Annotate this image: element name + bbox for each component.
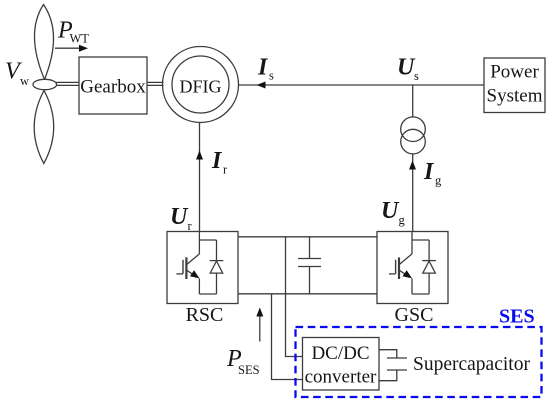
svg-text:converter: converter: [305, 367, 377, 388]
IGBT module inside GSC: [389, 232, 436, 294]
DFIG generator inner circle: [172, 56, 229, 113]
svg-text:U: U: [381, 198, 400, 224]
svg-text:g: g: [435, 174, 442, 188]
svg-text:Gearbox: Gearbox: [80, 77, 146, 98]
svg-text:Supercapacitor: Supercapacitor: [413, 354, 530, 375]
wire DC/DC to supercapacitor lower: [379, 370, 397, 381]
wind turbine top blade: [34, 5, 53, 80]
svg-text:RSC: RSC: [186, 304, 224, 326]
RSC converter box: [167, 232, 238, 304]
transformer lower circle: [401, 129, 426, 154]
svg-text:s: s: [269, 69, 274, 83]
Power System box: [484, 58, 545, 113]
I_g arrowhead: [409, 161, 416, 170]
IGBT module inside RSC: [176, 232, 223, 294]
svg-text:I: I: [211, 148, 223, 174]
supercapacitor plates: [387, 358, 407, 370]
svg-text:WT: WT: [70, 32, 90, 46]
wire stator: DFIG to Power System: [239, 84, 485, 86]
SES dashed boundary box: [296, 327, 542, 397]
transformer upper circle: [401, 117, 426, 142]
svg-text:U: U: [170, 204, 189, 230]
P_SES arrow line: [259, 313, 261, 342]
P_WT arrow: [55, 47, 80, 49]
svg-text:I: I: [423, 159, 435, 185]
wind turbine hub: [33, 79, 57, 89]
GSC converter box: [377, 232, 448, 304]
DFIG generator outer circle: [163, 47, 239, 123]
svg-text:g: g: [399, 213, 406, 227]
I_s arrowhead: [257, 82, 266, 89]
wire dc bus to DC/DC converter upper: [286, 237, 303, 357]
shaft hub-to-gearbox double line: [56, 82, 79, 85]
shaft gearbox-to-DFIG double line: [147, 82, 164, 85]
dc bus bottom rail: [238, 293, 377, 295]
svg-text:w: w: [20, 74, 29, 88]
I_r arrowhead: [196, 151, 203, 160]
dc bus top rail: [238, 236, 377, 238]
svg-text:System: System: [487, 86, 543, 107]
svg-text:GSC: GSC: [395, 304, 434, 326]
wire dc bus to DC/DC converter lower: [272, 294, 303, 380]
svg-text:Power: Power: [490, 62, 539, 83]
svg-text:I: I: [257, 55, 269, 81]
dc-link capacitor: [298, 237, 321, 294]
P_SES arrowhead: [256, 308, 263, 317]
wire rotor: DFIG to RSC: [199, 123, 201, 233]
wire transformer to GSC: [412, 154, 414, 232]
svg-text:DC/DC: DC/DC: [311, 343, 369, 364]
wind turbine bottom blade: [34, 91, 54, 164]
svg-text:SES: SES: [238, 363, 260, 377]
wire node Us vertical to transformer: [412, 85, 414, 117]
svg-text:SES: SES: [499, 306, 535, 328]
wire DC/DC to supercapacitor upper: [379, 350, 397, 358]
svg-text:DFIG: DFIG: [179, 77, 221, 97]
DC/DC converter box: [303, 338, 380, 391]
gearbox box: [79, 57, 147, 114]
svg-text:r: r: [223, 163, 228, 177]
svg-text:s: s: [414, 69, 419, 83]
